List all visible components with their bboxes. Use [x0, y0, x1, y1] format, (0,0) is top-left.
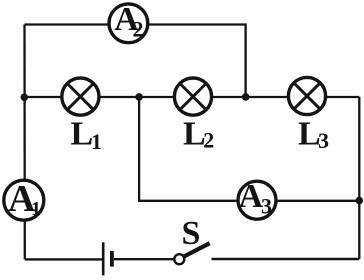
wire: switch to bottom-right corner [212, 258, 360, 260]
lamp L1: cross stroke 1 [68, 85, 92, 109]
node B: junction dot between L2 and L3 [242, 93, 250, 101]
svg-text:2: 2 [203, 128, 214, 153]
lamp L3: cross stroke 2 [295, 84, 319, 108]
node D: junction dot on right side wire [356, 197, 364, 205]
svg-text:3: 3 [261, 193, 272, 218]
svg-text:3: 3 [318, 128, 329, 153]
svg-text:L: L [71, 116, 94, 153]
wire: battery to switch pivot [114, 258, 174, 260]
wire: right side (lamp row corner down to bottom-right corner) [358, 97, 360, 259]
svg-text:S: S [182, 215, 201, 252]
wire: bottom left segment (corner to battery) [25, 258, 103, 260]
lamp L2: cross stroke 1 [181, 85, 205, 109]
battery cell: short thick plate [110, 251, 114, 267]
svg-text:A: A [239, 178, 264, 215]
node C: junction dot between L1 and L2 [135, 93, 143, 101]
lamp L1: body [62, 78, 99, 115]
svg-text:2: 2 [133, 17, 144, 42]
svg-text:1: 1 [91, 129, 102, 154]
wire: middle lamp row (node A to right top corner) [24, 96, 359, 98]
lamp L3: body [288, 77, 325, 114]
battery cell: long thin plate [102, 242, 105, 275]
wire: A3 branch (node C down then right through A3 to node D) [139, 97, 359, 201]
ammeter A3: body [238, 181, 276, 219]
svg-text:1: 1 [31, 198, 41, 220]
wire: left branch (top corner down through A1 to bottom-left corner) [23, 25, 26, 260]
ammeter A1: body [4, 180, 44, 220]
wire: top A2 branch (top-left corner right, then down to node B) [25, 25, 246, 98]
switch S: lever arm [184, 243, 209, 256]
node A: junction dot left of L1 [21, 94, 29, 102]
lamp L3: cross stroke 1 [295, 84, 319, 108]
switch S: pivot circle (open) [174, 254, 184, 264]
ammeter A2: body [109, 4, 148, 43]
lamp L2: body [174, 78, 211, 115]
lamp L1: cross stroke 2 [68, 85, 92, 109]
lamp L2: cross stroke 2 [181, 85, 205, 109]
